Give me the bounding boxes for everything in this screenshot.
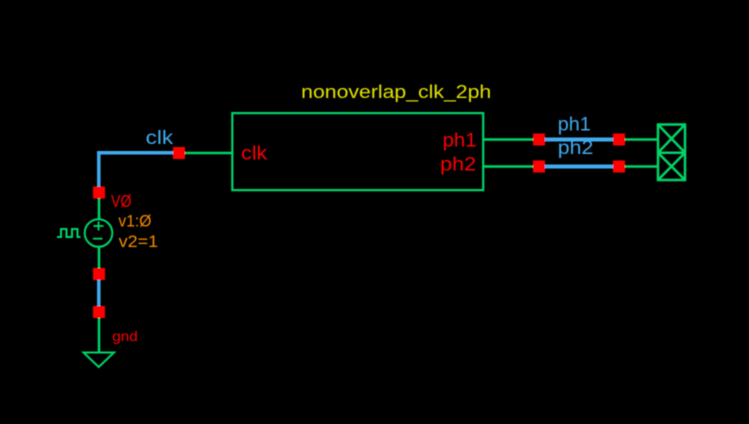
svg-text:v2=1: v2=1 — [119, 232, 159, 251]
svg-text:v1:Ø: v1:Ø — [118, 212, 151, 231]
svg-text:ph2: ph2 — [558, 138, 594, 159]
svg-text:nonoverlap_clk_2ph: nonoverlap_clk_2ph — [301, 82, 491, 103]
svg-text:ph2: ph2 — [440, 155, 476, 176]
svg-text:ph1: ph1 — [558, 115, 591, 136]
svg-text:clk: clk — [146, 128, 174, 149]
svg-text:gnd: gnd — [112, 328, 138, 344]
svg-text:VØ: VØ — [111, 191, 132, 211]
svg-text:ph1: ph1 — [443, 130, 477, 151]
svg-text:clk: clk — [241, 144, 268, 165]
